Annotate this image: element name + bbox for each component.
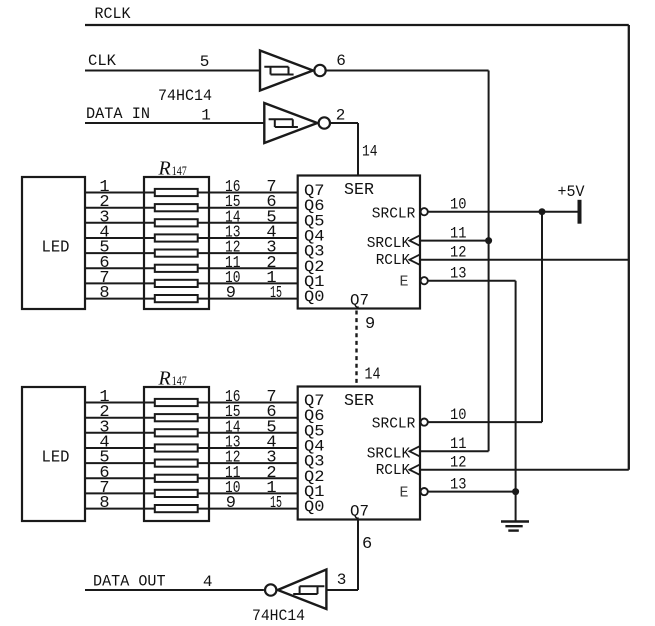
wire U2 E pin 13 to ground net bbox=[428, 491, 516, 493]
svg-text:DATA OUT: DATA OUT bbox=[93, 573, 166, 591]
LED display block A bbox=[22, 177, 85, 309]
resistor network R147 B (box) bbox=[144, 387, 209, 521]
svg-text:14: 14 bbox=[362, 143, 378, 161]
wire U1 SRCLK pin 11 to SRCLK net bbox=[420, 240, 489, 242]
svg-text:E: E bbox=[400, 484, 409, 501]
wire inverter U1A output to SRCLK net bbox=[326, 70, 488, 72]
wire U1 SRCLR pin 10 to +5V bbox=[428, 211, 578, 213]
svg-text:Q0: Q0 bbox=[304, 288, 325, 306]
svg-text:SRCLK: SRCLK bbox=[367, 235, 411, 252]
resistor R147 A element 4 bbox=[155, 234, 198, 241]
svg-text:R: R bbox=[158, 368, 171, 390]
pin number 10 net junction bbox=[539, 208, 546, 215]
wire U2 SRCLR pin 10 to SRCLR net bbox=[428, 421, 542, 423]
wire inverter U1B output horizontal bbox=[331, 122, 359, 124]
bubble on SRCLR pin (2) bbox=[421, 419, 428, 426]
svg-text:6: 6 bbox=[336, 52, 346, 70]
wire inverter U1C output to DATA OUT bbox=[85, 589, 264, 591]
bubble on E pin (2) bbox=[421, 488, 428, 495]
LED display block B bbox=[22, 387, 85, 521]
junction E net at ground bbox=[512, 488, 519, 495]
svg-text:10: 10 bbox=[450, 406, 467, 424]
resistor R147 B element 1 bbox=[155, 399, 198, 406]
svg-text:2: 2 bbox=[336, 107, 346, 125]
inverter U1B (74HC14 schmitt trigger, right-facing) bbox=[264, 103, 330, 143]
svg-text:9: 9 bbox=[226, 494, 236, 513]
svg-text:SRCLR: SRCLR bbox=[372, 416, 416, 433]
resistor R147 A element 6 bbox=[155, 265, 198, 272]
svg-text:147: 147 bbox=[172, 164, 187, 178]
wire serial data into U1 pin 14 bbox=[357, 123, 359, 176]
wire LED pin5 to shift register (B) bbox=[85, 462, 298, 464]
svg-text:LED: LED bbox=[42, 449, 70, 468]
power +5V terminal bar bbox=[578, 200, 582, 224]
resistor network R147 A (box) bbox=[144, 177, 209, 309]
bubble on SRCLR pin (1) bbox=[421, 208, 428, 215]
wire LED pin2 to shift register (A) bbox=[85, 207, 298, 209]
resistor R147 A element 5 bbox=[155, 250, 198, 257]
bubble on E pin (1) bbox=[421, 277, 428, 284]
wire U2 RCLK pin 12 to RCLK net bbox=[420, 469, 629, 471]
svg-text:1: 1 bbox=[201, 107, 211, 125]
wire SRCLR net vertical bbox=[541, 212, 543, 422]
svg-text:4: 4 bbox=[203, 573, 213, 591]
svg-text:LED: LED bbox=[42, 239, 70, 258]
wire RCLK net vertical right bbox=[628, 25, 630, 470]
shift register U2 (74HC595-style, SER block) bbox=[298, 387, 420, 520]
wire U1 Q7 serial out pin 9 dotted cascade bbox=[355, 311, 357, 386]
svg-text:74HC14: 74HC14 bbox=[252, 607, 305, 625]
shift register U1 (74HC595-style, SER block) bbox=[298, 176, 420, 309]
svg-text:RCLK: RCLK bbox=[376, 252, 411, 269]
wire LED pin2 to shift register (B) bbox=[85, 417, 298, 419]
wire U2 Q7 pin 9 down to inverter U1C bbox=[357, 520, 359, 591]
resistor R147 B element 8 bbox=[155, 505, 198, 512]
svg-text:8: 8 bbox=[99, 284, 109, 303]
svg-text:SER: SER bbox=[344, 181, 374, 200]
svg-text:RCLK: RCLK bbox=[376, 462, 411, 479]
resistor R147 B element 5 bbox=[155, 460, 198, 467]
label R147 A bbox=[158, 158, 187, 180]
wire LED pin6 to shift register (A) bbox=[85, 267, 298, 269]
svg-text:3: 3 bbox=[337, 571, 347, 589]
resistor R147 B element 2 bbox=[155, 414, 198, 421]
svg-text:5: 5 bbox=[200, 53, 210, 71]
wire U2 SRCLK pin 11 to SRCLK net bbox=[420, 450, 489, 452]
svg-text:74HC14: 74HC14 bbox=[158, 87, 212, 105]
wire RCLK net horizontal top bbox=[85, 24, 629, 26]
clock wedge on SRCLK pin (1) bbox=[410, 236, 420, 246]
wire LED pin1 to shift register (B) bbox=[85, 402, 298, 404]
wire CLK input to inverter U1A bbox=[85, 70, 260, 72]
svg-text:SER: SER bbox=[344, 392, 374, 411]
wire LED pin4 to shift register (A) bbox=[85, 237, 298, 239]
svg-text:147: 147 bbox=[172, 374, 187, 388]
svg-text:6: 6 bbox=[362, 535, 372, 554]
resistor R147 B element 6 bbox=[155, 475, 198, 482]
clock wedge on RCLK pin (2) bbox=[410, 465, 420, 475]
svg-text:15: 15 bbox=[270, 494, 282, 513]
svg-text:13: 13 bbox=[450, 264, 467, 282]
wire LED pin8 to shift register (B) bbox=[85, 508, 298, 510]
svg-text:13: 13 bbox=[450, 475, 467, 493]
resistor R147 A element 3 bbox=[155, 219, 198, 226]
wire DATA IN to inverter U1B bbox=[85, 122, 264, 124]
resistor R147 B element 4 bbox=[155, 444, 198, 451]
wire LED pin1 to shift register (A) bbox=[85, 192, 298, 194]
resistor R147 A element 7 bbox=[155, 280, 198, 287]
resistor R147 B element 3 bbox=[155, 429, 198, 436]
wire LED pin3 to shift register (A) bbox=[85, 222, 298, 224]
wire LED pin8 to shift register (A) bbox=[85, 298, 298, 300]
svg-text:SRCLK: SRCLK bbox=[367, 446, 411, 463]
wire LED pin5 to shift register (A) bbox=[85, 252, 298, 254]
label R147 B bbox=[158, 368, 187, 390]
wire inverter U1C input bbox=[326, 589, 358, 591]
svg-text:Q7: Q7 bbox=[350, 292, 369, 310]
wire E net vertical to ground bbox=[515, 281, 517, 521]
resistor R147 A element 8 bbox=[155, 295, 198, 302]
wire LED pin3 to shift register (B) bbox=[85, 432, 298, 434]
svg-text:15: 15 bbox=[270, 284, 282, 303]
wire U1 RCLK pin 12 to RCLK net bbox=[420, 259, 629, 261]
resistor R147 A element 2 bbox=[155, 204, 198, 211]
svg-text:+5V: +5V bbox=[558, 183, 585, 201]
wire LED pin6 to shift register (B) bbox=[85, 477, 298, 479]
wire LED pin4 to shift register (B) bbox=[85, 447, 298, 449]
inverter U1A (74HC14 schmitt trigger, right-facing) bbox=[260, 51, 326, 91]
svg-text:12: 12 bbox=[450, 453, 467, 471]
svg-text:DATA IN: DATA IN bbox=[86, 105, 150, 123]
svg-text:9: 9 bbox=[365, 315, 375, 334]
svg-text:Q0: Q0 bbox=[304, 498, 325, 516]
clock wedge on RCLK pin (1) bbox=[410, 255, 420, 265]
wire LED pin7 to shift register (B) bbox=[85, 492, 298, 494]
svg-text:8: 8 bbox=[99, 494, 109, 513]
junction SRCLK net at U1 pin 11 bbox=[485, 237, 492, 244]
svg-text:CLK: CLK bbox=[88, 52, 116, 70]
resistor R147 B element 7 bbox=[155, 490, 198, 497]
wire U1 E pin 13 horizontal bbox=[428, 280, 516, 282]
wire LED pin7 to shift register (A) bbox=[85, 282, 298, 284]
inverter U1C (74HC14 schmitt trigger, left-facing) bbox=[265, 570, 326, 610]
svg-text:12: 12 bbox=[450, 243, 467, 261]
svg-text:9: 9 bbox=[226, 284, 236, 303]
svg-text:14: 14 bbox=[365, 366, 381, 385]
svg-text:R: R bbox=[158, 158, 171, 180]
svg-text:E: E bbox=[400, 274, 409, 291]
ground symbol bbox=[501, 522, 529, 531]
svg-text:Q7: Q7 bbox=[350, 503, 369, 521]
wire SRCLK net vertical bbox=[488, 71, 490, 452]
resistor R147 A element 1 bbox=[155, 189, 198, 196]
clock wedge on SRCLK pin (2) bbox=[410, 446, 420, 456]
svg-text:SRCLR: SRCLR bbox=[372, 205, 416, 222]
svg-text:RCLK: RCLK bbox=[95, 5, 131, 23]
